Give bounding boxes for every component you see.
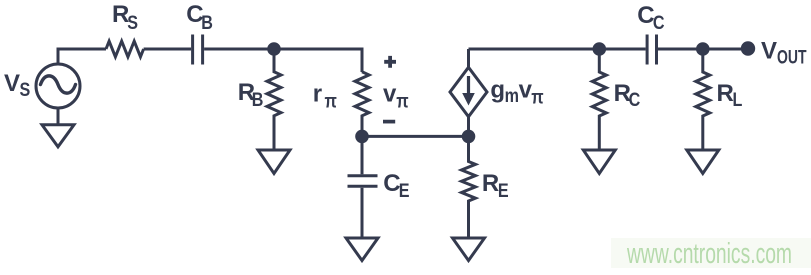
capacitor CC bbox=[647, 35, 656, 65]
svg-text:C: C bbox=[653, 12, 665, 34]
svg-text:S: S bbox=[20, 79, 31, 101]
svg-text:g: g bbox=[490, 76, 505, 103]
label CE bbox=[383, 170, 409, 201]
resistor RB bbox=[267, 49, 281, 149]
wire VS top to RS bbox=[58, 49, 106, 64]
node A dot bbox=[267, 42, 281, 56]
ground VS bbox=[42, 108, 74, 147]
label RE bbox=[482, 170, 509, 201]
svg-text:R: R bbox=[482, 170, 499, 197]
label RB bbox=[238, 79, 264, 110]
resistor RE bbox=[462, 136, 476, 236]
node E dot bbox=[696, 42, 710, 56]
svg-text:OUT: OUT bbox=[777, 48, 807, 69]
node C dot bbox=[462, 130, 476, 144]
resistor rpi bbox=[355, 72, 369, 137]
svg-text:r: r bbox=[313, 80, 322, 107]
label VOUT bbox=[761, 37, 807, 68]
wire CB to rpi corner bbox=[204, 49, 362, 72]
svg-text:v: v bbox=[383, 81, 397, 108]
node B dot bbox=[355, 130, 369, 144]
label RC bbox=[614, 80, 641, 111]
label gmvpi bbox=[490, 76, 544, 107]
minus sign bbox=[383, 120, 395, 124]
capacitor CB bbox=[193, 35, 203, 65]
svg-text:C: C bbox=[637, 2, 654, 29]
label RL bbox=[717, 80, 743, 111]
resistor RL bbox=[696, 49, 710, 149]
ground RL bbox=[687, 150, 719, 174]
label rpi bbox=[313, 80, 338, 111]
svg-text:R: R bbox=[717, 80, 734, 107]
label CC bbox=[637, 2, 665, 34]
ground RE bbox=[453, 238, 485, 261]
wire G1 top to CC bbox=[469, 48, 646, 51]
ground CE bbox=[346, 238, 378, 261]
svg-text:E: E bbox=[399, 180, 410, 202]
svg-text:B: B bbox=[201, 12, 213, 34]
label VS bbox=[4, 70, 30, 101]
plus sign bbox=[384, 56, 396, 68]
svg-text:E: E bbox=[498, 180, 509, 202]
capacitor CE bbox=[348, 136, 378, 236]
watermark bbox=[611, 238, 811, 270]
wire bottom rail bbox=[362, 135, 469, 138]
wire CC to VOUT bbox=[658, 48, 742, 51]
svg-text:π: π bbox=[396, 90, 409, 112]
terminal VOUT dot bbox=[741, 41, 755, 55]
label CB bbox=[186, 1, 213, 33]
svg-text:C: C bbox=[629, 89, 641, 111]
svg-text:S: S bbox=[127, 12, 138, 34]
ground RC bbox=[583, 150, 615, 174]
dependent current source G1 bbox=[450, 49, 487, 136]
node D dot bbox=[593, 42, 607, 56]
svg-text:π: π bbox=[531, 86, 544, 108]
svg-text:www.cntronics.com: www.cntronics.com bbox=[626, 238, 792, 270]
wire RS to CB bbox=[144, 48, 192, 51]
svg-text:B: B bbox=[252, 89, 264, 111]
resistor RC bbox=[592, 49, 606, 149]
label vpi bbox=[383, 81, 409, 112]
svg-text:V: V bbox=[761, 37, 777, 64]
ground RB bbox=[258, 150, 290, 174]
svg-text:V: V bbox=[4, 70, 20, 97]
resistor RS bbox=[106, 41, 144, 57]
svg-text:L: L bbox=[733, 89, 743, 111]
svg-text:π: π bbox=[325, 90, 338, 112]
svg-text:m: m bbox=[505, 85, 519, 107]
voltage source VS bbox=[36, 64, 80, 108]
label RS bbox=[112, 1, 138, 33]
